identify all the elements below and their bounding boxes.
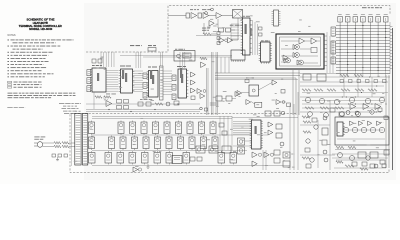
capacitor C114 <box>124 106 129 110</box>
resistor R120 <box>302 89 311 92</box>
IC text U135 <box>255 126 257 134</box>
ref label 54 <box>306 116 309 119</box>
driver cell B1 <box>89 137 95 149</box>
ref label 52 <box>382 92 384 95</box>
ref label 42 <box>222 100 224 103</box>
IC text U111 <box>125 73 127 82</box>
wire bundle mid vertical <box>216 57 218 73</box>
capacitor C101 <box>186 13 190 18</box>
resistor R101 <box>203 33 211 36</box>
op-amp U103 <box>209 21 214 27</box>
wire analog h7 <box>302 107 380 109</box>
driver cell B7 <box>166 137 172 149</box>
transistor Q126 <box>306 139 310 143</box>
resistor R126 <box>320 107 329 110</box>
label TNC <box>148 45 156 46</box>
ref label 46 <box>373 92 376 95</box>
wire analog h1 <box>300 76 390 78</box>
wire analog h5 <box>302 103 382 105</box>
wire bus mid <box>215 72 300 74</box>
ref label 57 <box>320 111 323 114</box>
audio box outline <box>335 117 389 145</box>
wire osc chain <box>209 15 216 17</box>
capacitor C115 <box>281 90 285 94</box>
wire osc input <box>168 15 186 17</box>
transistor Q112 <box>361 127 366 132</box>
ref label 55 <box>307 92 310 95</box>
test point TP1 <box>205 12 208 15</box>
ref label 64 <box>135 165 138 168</box>
relay box K110 <box>226 96 232 101</box>
label U105 <box>242 15 250 18</box>
gate U108 <box>283 55 288 61</box>
transistor Q120 <box>323 150 327 154</box>
wire modem col v <box>262 150 264 170</box>
ref label 83 <box>376 146 379 149</box>
IC U112 ROM <box>149 71 159 98</box>
ref label 61 <box>153 150 156 153</box>
wire power to strip <box>69 142 75 144</box>
capacitor C141 <box>265 111 271 116</box>
gate U109A <box>299 38 305 44</box>
wire audio h6 <box>332 157 388 159</box>
wire U110 down <box>93 92 95 109</box>
driver cell B8 <box>178 137 184 149</box>
gate U131D <box>377 121 381 126</box>
label U111 <box>120 66 131 67</box>
ref label 12 <box>285 44 288 47</box>
ref label 44 <box>246 78 249 81</box>
svg-text:MODEL HD-4040: MODEL HD-4040 <box>29 27 53 31</box>
driver cell B6 <box>155 137 161 149</box>
ref label 93 <box>291 153 294 156</box>
driver cell A3 <box>130 122 136 134</box>
label osc A <box>190 8 199 11</box>
resistor R112 <box>95 96 102 99</box>
IC text U113 <box>180 68 182 78</box>
label clock box <box>175 48 185 51</box>
capacitor column C105 <box>217 32 220 35</box>
grid right edge pins <box>390 26 393 28</box>
capacitor C120 <box>303 74 311 80</box>
ref label 72 <box>264 131 267 134</box>
capacitor C136 <box>380 160 385 164</box>
address line 1 <box>59 102 81 105</box>
schematic paper tint <box>84 3 396 180</box>
wire right col h3 <box>300 124 330 126</box>
capacitor C106 <box>259 27 263 30</box>
bus grid vertical lines <box>339 22 341 71</box>
IC text U105 <box>250 28 252 36</box>
resistor R127 <box>335 107 344 110</box>
ref label 88 <box>253 113 256 116</box>
ref label 24 <box>160 79 162 82</box>
wire long h2 <box>86 111 200 113</box>
wire row BC rail <box>92 150 232 152</box>
transistor Q101 <box>305 97 310 102</box>
ref label 73 <box>257 133 260 136</box>
transistor Q127 <box>314 125 318 129</box>
crystal Y103 <box>183 53 191 58</box>
ref label 78 <box>230 128 233 131</box>
capacitor C154 <box>352 162 357 166</box>
wire modem col h <box>233 145 251 147</box>
capacitor C108 <box>92 59 96 63</box>
gate U109B <box>311 38 317 44</box>
capacitor C143 <box>274 150 280 155</box>
wire rail C ext <box>232 150 247 152</box>
capacitor C102 <box>198 13 202 18</box>
ref label 92 <box>317 153 319 156</box>
ref label 6 <box>210 18 213 21</box>
resistor R121 <box>314 89 323 92</box>
capacitor C110 <box>191 96 195 100</box>
ref label 4 <box>213 25 217 28</box>
address line 5 <box>64 112 76 115</box>
wire audio h4 <box>335 149 390 151</box>
inverter U102B <box>228 38 233 44</box>
capacitor C148 <box>305 148 310 152</box>
resistor R140 <box>302 116 310 119</box>
transistor Q117 <box>338 153 343 158</box>
driver cell C4 <box>129 153 136 164</box>
wire reset net <box>211 33 217 35</box>
transistor Q102 <box>319 98 324 103</box>
capacitor C139 <box>276 124 282 129</box>
gate U118A <box>235 92 240 97</box>
gate U136A <box>268 122 273 127</box>
driver cell B4 <box>132 137 138 149</box>
capacitor row right <box>340 80 344 83</box>
wire bus right h2 <box>300 85 384 87</box>
ref label 33 <box>249 77 252 80</box>
transistor Q114 <box>379 127 384 132</box>
gate U114C <box>191 88 196 93</box>
wire analog h6 <box>302 100 384 102</box>
ref label 10 <box>256 20 260 23</box>
relay box K109 <box>216 96 222 101</box>
modem IC U119 <box>249 85 259 96</box>
ref label 34 <box>276 107 279 110</box>
wire analog h2 <box>300 96 385 98</box>
ref label 47 <box>362 119 365 122</box>
op-amp U134 <box>375 104 381 110</box>
ref label 20 <box>151 88 154 91</box>
ref label 60 <box>159 150 161 153</box>
driver cell A2 <box>118 122 124 134</box>
capacitor C138 <box>322 140 327 145</box>
driver cell B9 <box>189 137 195 149</box>
driver cell B10 <box>201 137 207 149</box>
capacitor C162 <box>64 154 68 157</box>
driver cell C10 <box>230 153 237 164</box>
capacitor C149 <box>306 164 311 168</box>
clock sub-circuit box <box>174 51 195 62</box>
transistor Q129 <box>166 102 170 106</box>
IC text U110 <box>97 73 99 81</box>
ref label 84 <box>367 144 371 147</box>
resistor R125 <box>305 107 314 110</box>
op-amp U115 <box>106 101 112 107</box>
connector switch S104 <box>361 17 366 23</box>
transistor Q135 <box>370 110 374 114</box>
wire cpu right bundle <box>252 20 254 55</box>
driver cell C1 <box>89 153 96 164</box>
capacitor C134 <box>362 162 367 166</box>
logic box U109 outer <box>276 34 324 69</box>
driver cell C9 <box>218 153 225 164</box>
op-amp U122 <box>276 100 281 105</box>
wire right rail2 <box>388 75 390 168</box>
bus vertical pair c <box>215 52 217 115</box>
ref label 37 <box>213 96 217 99</box>
note line 7 <box>8 57 46 60</box>
label U112 <box>148 67 157 68</box>
resistor R138 <box>336 161 343 164</box>
capacitor C132 <box>358 152 366 158</box>
legend symbol 2 <box>8 84 12 86</box>
note line 1 <box>8 39 74 42</box>
IC U113 SIO <box>178 69 187 98</box>
wire analog h3 <box>300 111 380 113</box>
capacitor C117 <box>222 131 227 135</box>
capacitor C104 <box>226 28 231 32</box>
label J101 <box>362 7 382 8</box>
crystal Y102 <box>148 48 156 52</box>
wire bundle cells to U135 <box>219 116 221 150</box>
capacitor C109 <box>98 59 102 63</box>
part number text <box>7 106 25 109</box>
ref label 85 <box>280 146 282 149</box>
address line 2 <box>63 105 77 108</box>
resistor R110 <box>340 74 349 77</box>
connector pin strip P102 <box>160 66 164 100</box>
capacitor C130 <box>330 108 335 112</box>
ref label 11 <box>240 19 243 22</box>
ref label 81 <box>333 107 335 110</box>
connector switch S105 <box>368 17 373 23</box>
crystal oscillator module Y101 <box>233 10 243 19</box>
wire logic h4 <box>281 61 284 63</box>
connector strip P105 <box>83 114 88 166</box>
driver cell A6 <box>164 122 170 134</box>
driver cell A1 <box>89 122 95 134</box>
note line 3 <box>8 45 61 48</box>
driver cell C5 <box>142 153 149 164</box>
driver cell C2 <box>105 153 112 164</box>
wire rail B ext <box>232 134 251 136</box>
capacitor C145 <box>283 152 290 158</box>
capacitor C161 <box>58 154 62 157</box>
ground bottom <box>147 164 149 167</box>
capacitor C137 <box>322 128 328 135</box>
address line 3 <box>62 107 79 110</box>
wire modem h <box>242 92 249 94</box>
relay box K107 <box>238 138 245 145</box>
transistor Q125 <box>280 142 284 146</box>
ref label 65 <box>283 159 285 162</box>
gate U114B <box>191 80 196 85</box>
op-amp U123 <box>246 100 251 105</box>
label U113 <box>177 66 186 67</box>
legend symbol 1 <box>8 81 12 83</box>
wire bundle U135 input <box>233 121 251 123</box>
ref label 7 <box>250 14 253 17</box>
capacitor C144 <box>274 158 280 163</box>
ref label 43 <box>216 105 219 108</box>
transistor Q133 <box>177 54 181 58</box>
gate U109D <box>295 53 300 58</box>
bus vertical center <box>135 52 137 68</box>
transistor Q121 <box>324 158 328 162</box>
transistor Q105 <box>365 98 370 103</box>
label P104 <box>75 110 81 113</box>
ref label 29 <box>120 76 123 79</box>
ref label 15 <box>101 56 103 59</box>
ref label 1 <box>308 25 310 28</box>
wire bus mid vertical <box>292 70 294 115</box>
wire cpu left pins <box>231 23 239 25</box>
resistor R130 <box>345 165 354 168</box>
capacitor marks on bus <box>210 102 219 104</box>
capacitor C103 <box>219 28 224 32</box>
transistor Q124 <box>281 111 285 115</box>
ref label 82 <box>257 115 260 118</box>
wire long h1 <box>86 109 200 111</box>
resistor R113 <box>200 57 207 60</box>
IC text U113 <box>181 74 183 83</box>
IC text U105 <box>245 24 247 34</box>
capacitor C112 <box>124 100 129 104</box>
speaker box LS1 <box>172 156 182 164</box>
label SPKR <box>106 93 116 96</box>
ref label 21 <box>119 86 122 89</box>
ref label 2 <box>271 31 275 34</box>
capacitor C142 <box>274 111 280 116</box>
note 14 line 2 <box>8 94 76 97</box>
transistor Q116 <box>355 111 359 115</box>
ref label 16 <box>155 95 157 98</box>
ref label 56 <box>353 122 356 125</box>
ref label 31 <box>223 90 227 93</box>
transistor Q132 <box>200 107 203 110</box>
wire bus right h1 <box>300 81 388 83</box>
data bus U110-U111 <box>106 70 118 72</box>
driver cell A5 <box>153 122 159 134</box>
driver cell C8 <box>183 153 190 164</box>
op-amp U132 <box>350 104 356 110</box>
ref label 26 <box>150 98 152 101</box>
IC U110 <box>92 68 106 92</box>
connector switch S101 <box>338 17 343 23</box>
wire pair mid <box>120 54 232 56</box>
driver cell B3 <box>120 137 126 149</box>
label Y101 <box>230 24 242 27</box>
relay box K105 <box>209 146 218 153</box>
resistor R123 <box>341 89 350 92</box>
op-amp U133 <box>363 104 369 110</box>
capacitor C151 <box>138 102 143 106</box>
relay box K108 <box>238 147 245 154</box>
test point TP2 <box>211 8 214 11</box>
filter coil L2 <box>54 145 61 148</box>
bus vertical pair a <box>206 68 208 115</box>
ref label 35 <box>212 60 215 63</box>
filter coil L1 <box>54 142 61 145</box>
capacitor C107 <box>259 33 263 36</box>
ref label 66 <box>134 151 136 154</box>
transistor Q104 <box>349 97 354 102</box>
label U119 <box>246 77 254 80</box>
connector strip P104 <box>75 114 81 166</box>
capacitor C158 <box>255 102 262 107</box>
ref label 48 <box>338 100 341 103</box>
ref label 19 <box>104 98 108 101</box>
gate U116B <box>197 89 202 94</box>
gate U114A <box>191 72 196 77</box>
capacitor C140 <box>276 133 282 138</box>
driver cell B2 <box>109 137 115 149</box>
connector pin strip P106 <box>274 10 279 26</box>
ref label 87 <box>249 118 253 121</box>
svg-text:NOTES:: NOTES: <box>8 35 17 37</box>
connector P108 pins <box>172 75 176 81</box>
ref label 45 <box>351 114 353 117</box>
gate U136B <box>268 130 273 135</box>
resistor R115 <box>104 96 111 99</box>
ref label 63 <box>133 143 135 146</box>
transistor Q111 <box>352 127 357 132</box>
wire cpu bus a <box>250 24 253 26</box>
IC text U112 <box>150 70 152 79</box>
driver cell A10 <box>210 122 216 134</box>
driver cell A7 <box>176 122 182 134</box>
wire logic h2 <box>281 48 293 50</box>
resistor R139 <box>368 89 377 92</box>
inverter U102A <box>219 38 224 44</box>
capacitor C121 <box>317 74 326 81</box>
gate U131B <box>359 121 363 126</box>
wire logic h3 <box>281 55 293 57</box>
ref label 51 <box>367 109 369 112</box>
address bus vertical <box>100 52 102 67</box>
bus vertical pair b <box>211 52 213 115</box>
note line 9 <box>8 63 44 66</box>
note 14 line 3 <box>8 96 52 99</box>
junction dots right <box>355 103 356 104</box>
resistor R136 <box>155 103 163 106</box>
flip-flop U109G <box>311 48 317 53</box>
capacitor C153 <box>174 101 179 105</box>
ref label 91 <box>353 140 356 143</box>
transistor Q109 <box>340 112 345 117</box>
ref label 27 <box>104 68 106 71</box>
capacitor C152 <box>146 102 151 106</box>
capacitor C160 <box>52 154 56 157</box>
gate U109C <box>295 45 300 50</box>
wire power <box>43 142 54 144</box>
transistor Q118 <box>350 156 355 161</box>
transistor Q103 <box>334 99 339 104</box>
transistor Q134 <box>356 112 361 117</box>
ref label 68 <box>229 158 233 161</box>
ref label 69 <box>241 126 243 129</box>
connector P101 pins <box>87 70 91 76</box>
ref label 94 <box>256 103 259 106</box>
note line 12 <box>8 72 54 75</box>
transistor Q130 <box>366 156 370 160</box>
connector J102 pin boxes <box>331 27 336 36</box>
